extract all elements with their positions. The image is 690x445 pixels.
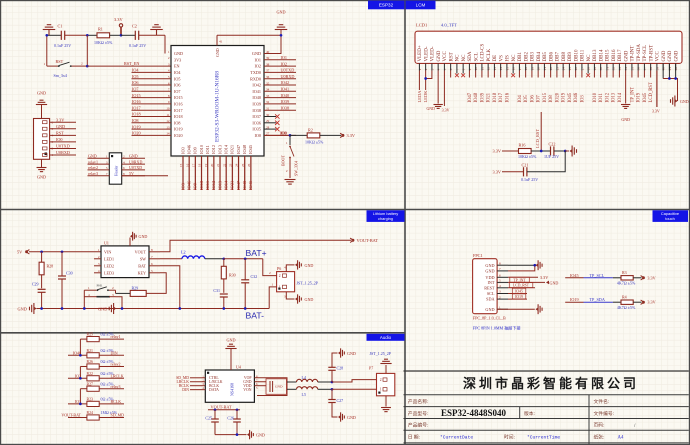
svg-text:5V: 5V	[17, 249, 23, 254]
svg-text:21: 21	[216, 163, 220, 167]
svg-text:IO42: IO42	[281, 80, 290, 85]
svg-text:R30: R30	[229, 272, 236, 277]
svg-text:DB10: DB10	[574, 49, 579, 61]
svg-text:U0TXD: U0TXD	[281, 68, 295, 73]
resistor R23	[87, 401, 99, 406]
ground - LCD right corner	[675, 99, 677, 102]
svg-text:IO10: IO10	[199, 144, 204, 154]
svg-text:C32: C32	[251, 274, 258, 279]
svg-text:IO46: IO46	[186, 180, 191, 190]
U2 bottom pin 15 IO3	[182, 156, 184, 190]
ground - P6 bottom	[295, 297, 297, 300]
svg-text:C29: C29	[32, 282, 39, 287]
svg-text:IO37: IO37	[252, 114, 261, 119]
tab Capacitive touch	[653, 210, 689, 222]
P4 bottom pin to ground	[41, 159, 43, 167]
svg-text:IO20: IO20	[174, 133, 183, 138]
svg-text:IO19: IO19	[174, 127, 183, 132]
capacitor C28	[331, 370, 333, 382]
ground - FPC top	[536, 264, 538, 267]
svg-text:charging: charging	[378, 216, 393, 221]
wire net IO0 to R2	[264, 134, 290, 136]
svg-text:Audio: Audio	[380, 335, 392, 340]
svg-text:DB16: DB16	[612, 49, 617, 61]
wire net IO19	[132, 128, 172, 130]
P6 pin3 to ground	[286, 292, 294, 299]
svg-text:3.3V: 3.3V	[647, 300, 655, 305]
svg-text:DB8: DB8	[562, 52, 567, 62]
svg-text:纸张:: 纸张:	[594, 434, 605, 441]
wire to L5	[287, 388, 297, 390]
wire net IO1	[264, 59, 296, 61]
resistor R30	[223, 259, 225, 266]
svg-text:R28: R28	[47, 264, 54, 269]
svg-text:IO21: IO21	[230, 181, 235, 190]
Y1 pin 6 U0TXD	[122, 169, 145, 171]
U2 bottom pin 17 IO9	[194, 156, 196, 190]
svg-text:TP_SCL: TP_SCL	[590, 273, 605, 278]
svg-text:P7: P7	[369, 366, 373, 371]
wire net TP_SDA	[584, 301, 613, 303]
wire net IO5	[132, 78, 172, 80]
svg-text:SW: SW	[140, 256, 146, 261]
svg-text:IO10: IO10	[199, 180, 204, 190]
svg-text:DB5: DB5	[543, 52, 548, 62]
wire net IO40	[264, 97, 296, 99]
svg-text:DB4: DB4	[537, 52, 542, 62]
svg-text:P6: P6	[277, 266, 281, 271]
wire net IO4	[132, 71, 172, 73]
svg-text:20: 20	[210, 163, 214, 167]
wire BAT+ line	[224, 258, 263, 260]
svg-text:IO16: IO16	[174, 102, 183, 107]
svg-text:IO38: IO38	[281, 105, 290, 110]
svg-text:25: 25	[241, 163, 245, 167]
svg-text:IO45: IO45	[515, 289, 523, 293]
capacitor C30	[61, 252, 63, 276]
svg-text:0.1uF 25V: 0.1uF 25V	[54, 43, 71, 48]
svg-text:TP-SCL: TP-SCL	[643, 45, 648, 62]
resistor R27	[87, 386, 99, 391]
svg-text:IO18: IO18	[493, 92, 498, 102]
svg-text:DATA: DATA	[209, 388, 219, 392]
svg-text:IO1: IO1	[281, 55, 288, 60]
connector P7 body	[377, 373, 395, 395]
svg-text:IO4: IO4	[174, 70, 181, 75]
svg-text:LED3: LED3	[104, 270, 114, 275]
svg-text:3.3V: 3.3V	[347, 133, 356, 138]
Y1 pin 1 GND	[88, 157, 110, 159]
svg-text:JST_1.25_2P: JST_1.25_2P	[297, 281, 319, 286]
svg-text:NC: NC	[456, 54, 461, 62]
svg-text:19: 19	[204, 163, 208, 167]
wire net IO19	[565, 301, 583, 303]
svg-text:IO12: IO12	[605, 92, 610, 102]
svg-text:GND: GND	[624, 50, 629, 61]
no-connect X	[455, 73, 459, 77]
svg-text:IO16: IO16	[132, 99, 141, 104]
svg-text:RXD0: RXD0	[250, 76, 261, 81]
svg-text:R1: R1	[98, 27, 103, 32]
svg-text:18: 18	[198, 163, 202, 167]
svg-text:BOOT: BOOT	[281, 155, 286, 166]
wire	[633, 301, 641, 303]
svg-text:REST: REST	[484, 285, 495, 290]
svg-text:IO47: IO47	[236, 144, 241, 154]
svg-text:IO20: IO20	[132, 131, 141, 136]
svg-text:IO46: IO46	[574, 92, 579, 102]
svg-text:IO11: IO11	[599, 92, 604, 102]
svg-text:KEY: KEY	[138, 270, 146, 275]
resistor R24	[87, 415, 99, 420]
svg-text:R2: R2	[308, 128, 313, 133]
svg-text:IO0: IO0	[254, 133, 261, 138]
wire net IO0	[264, 134, 296, 136]
svg-text:IO21: IO21	[230, 145, 235, 154]
wire to P7 pin2	[332, 380, 377, 382]
Y1 pin 5 relay2	[88, 169, 110, 171]
svg-text:10KΩ ±5%: 10KΩ ±5%	[518, 154, 537, 159]
svg-text:日 期:: 日 期:	[408, 435, 420, 441]
U2 bottom pin 21 IO13	[219, 156, 221, 190]
svg-text:R23: R23	[87, 398, 94, 402]
svg-text:GND: GND	[275, 384, 283, 388]
ground - P7 bottom	[381, 407, 391, 409]
svg-text:GND: GND	[215, 48, 220, 57]
svg-text:IO35: IO35	[252, 127, 261, 132]
ground - top near C2	[150, 29, 163, 31]
svg-text:DB14: DB14	[599, 49, 604, 61]
svg-text:C1: C1	[58, 24, 63, 29]
svg-text:L5: L5	[302, 392, 306, 397]
svg-text:U0RXD: U0RXD	[56, 150, 70, 155]
resistor R28	[41, 252, 43, 262]
wire 5V rail	[29, 251, 101, 253]
svg-text:LCD-CS: LCD-CS	[481, 44, 486, 62]
svg-text:C31: C31	[213, 288, 220, 293]
wire IO2 pair join	[79, 367, 81, 379]
ground - FPC bottom	[536, 308, 538, 311]
svg-text:2: 2	[279, 274, 281, 278]
svg-text:IO7: IO7	[174, 89, 181, 94]
wire KEY to R29	[147, 273, 167, 294]
wire	[264, 30, 281, 54]
capacitor C26	[236, 410, 238, 419]
svg-text:SDA: SDA	[468, 51, 473, 61]
no-connect X	[264, 116, 276, 118]
svg-text:C30: C30	[66, 271, 73, 276]
svg-text:FPC1: FPC1	[473, 253, 483, 258]
svg-text:relay2: relay2	[88, 165, 98, 170]
svg-text:IO3: IO3	[180, 182, 185, 190]
svg-text:IO19: IO19	[562, 92, 567, 102]
svg-text:TP_SDA: TP_SDA	[590, 297, 605, 302]
svg-text:LED1: LED1	[104, 256, 114, 261]
wire	[121, 34, 135, 36]
wire	[116, 292, 131, 294]
svg-text:R26: R26	[87, 360, 94, 364]
wire net IO6	[132, 84, 172, 86]
svg-text:IO38: IO38	[252, 108, 261, 113]
svg-text:3.3V: 3.3V	[442, 108, 450, 113]
wire	[318, 381, 332, 383]
svg-text:24: 24	[235, 163, 239, 167]
svg-text:时间:: 时间:	[504, 434, 515, 441]
svg-text:4.0_TFT: 4.0_TFT	[441, 22, 457, 27]
wire	[633, 277, 641, 279]
svg-text:41: 41	[219, 40, 223, 44]
net label IO45	[508, 293, 527, 295]
svg-text:GND: GND	[305, 263, 314, 268]
svg-text:IO17: IO17	[132, 105, 141, 110]
svg-text:U0TXD: U0TXD	[129, 165, 142, 170]
svg-text:TP-INT: TP-INT	[631, 46, 636, 62]
ground - C27	[338, 415, 340, 418]
svg-text:VOUT-BAT: VOUT-BAT	[357, 238, 379, 243]
op-amp U4 audio amp body	[205, 370, 254, 402]
svg-text:10KΩ ±5%: 10KΩ ±5%	[305, 139, 324, 144]
wire net IO45	[565, 277, 583, 279]
svg-text:DB15: DB15	[606, 49, 611, 61]
svg-text:R21: R21	[87, 349, 94, 353]
svg-text:VLED-: VLED-	[424, 46, 429, 61]
svg-text:2: 2	[81, 62, 83, 66]
svg-text:*CurrentDate: *CurrentDate	[440, 435, 473, 441]
svg-text:GND: GND	[56, 124, 65, 129]
svg-text:RST: RST	[56, 131, 64, 136]
svg-text:IO45: IO45	[568, 92, 573, 102]
svg-text:C28: C28	[337, 366, 344, 371]
svg-text:IO19: IO19	[515, 295, 523, 299]
svg-text:IO14: IO14	[223, 144, 228, 154]
svg-text:IO47: IO47	[468, 92, 473, 102]
svg-text:GND: GND	[305, 297, 314, 302]
svg-text:15: 15	[179, 163, 183, 167]
capacitor C25	[214, 410, 216, 419]
svg-text:IO40: IO40	[252, 95, 261, 100]
wire PH1 pin3 to ground rail	[116, 297, 123, 309]
no-connect X	[264, 122, 276, 124]
svg-text:IO18: IO18	[132, 112, 141, 117]
svg-text:IO2: IO2	[254, 64, 261, 69]
wire	[527, 151, 565, 172]
svg-text:L2: L2	[181, 250, 186, 255]
wire to net BCLK	[99, 403, 124, 405]
wire from net IO1	[68, 403, 87, 405]
wire	[318, 388, 332, 390]
wire net IO42	[264, 84, 296, 86]
svg-text:IO8: IO8	[132, 118, 139, 123]
svg-text:R29: R29	[132, 285, 139, 290]
svg-text:DIN: DIN	[182, 388, 189, 392]
wire net IO18	[132, 116, 172, 118]
capacitor C27	[331, 389, 333, 399]
svg-text:IO48: IO48	[474, 92, 479, 102]
wire FPC GND pins join	[508, 265, 535, 271]
svg-text:文件名:: 文件名:	[594, 398, 610, 405]
tab Audio	[367, 334, 405, 341]
svg-text:16: 16	[185, 163, 189, 167]
svg-text:touch: touch	[665, 216, 675, 221]
svg-text:*CurrentTime: *CurrentTime	[527, 435, 560, 441]
svg-text:NC: NC	[587, 54, 592, 62]
svg-text:GND: GND	[485, 263, 494, 268]
svg-text:GND: GND	[662, 50, 667, 61]
svg-text:IO1: IO1	[254, 57, 261, 62]
ground - audio caps	[247, 433, 249, 436]
wire	[47, 34, 61, 36]
wire	[531, 150, 550, 152]
svg-text:NC: NC	[512, 54, 517, 62]
svg-text:IO45: IO45	[248, 144, 253, 154]
wire	[65, 34, 88, 36]
svg-text:BCLK: BCLK	[111, 399, 122, 404]
wire from net VOUT-BAT	[68, 417, 87, 419]
svg-text:IO12: IO12	[211, 145, 216, 154]
power port 3.3V	[641, 276, 644, 280]
svg-text:VOUT: VOUT	[135, 249, 147, 254]
wire BAT+ to P6 pin2	[263, 259, 277, 276]
svg-text:EN: EN	[174, 64, 180, 69]
svg-text:5V: 5V	[129, 171, 134, 176]
svg-text:DB11: DB11	[581, 49, 586, 61]
svg-text:1: 1	[279, 285, 281, 289]
svg-text:DB9: DB9	[568, 52, 573, 62]
wire net TP_SCL	[584, 277, 613, 279]
svg-text:IO4: IO4	[132, 68, 139, 73]
svg-text:LEDK: LEDK	[423, 90, 428, 103]
net label IO19	[508, 298, 527, 300]
wire - LCD GND pins 40-42 join	[663, 79, 677, 102]
svg-text:GND: GND	[98, 306, 107, 311]
svg-text:IO36: IO36	[252, 120, 261, 125]
svg-text:R25: R25	[87, 333, 94, 337]
svg-text:3.3V: 3.3V	[114, 17, 123, 22]
svg-text:GND: GND	[139, 234, 148, 239]
svg-text:DB2: DB2	[524, 52, 529, 62]
svg-text:DB1: DB1	[518, 52, 523, 62]
wire to net relay1	[99, 338, 124, 340]
Y1 pin 7 relay3	[88, 175, 110, 177]
svg-text:23: 23	[229, 163, 233, 167]
P4 pin 2 U0TXD	[43, 147, 48, 150]
ground - P7 top	[380, 363, 391, 365]
svg-text:relay1: relay1	[111, 334, 121, 339]
wire P6 pin1 to BAT-	[269, 287, 276, 309]
svg-text:HS: HS	[506, 55, 511, 62]
svg-text:FPC_8P_1.0_CL_B: FPC_8P_1.0_CL_B	[473, 316, 506, 321]
svg-text:LCD_RST: LCD_RST	[535, 129, 540, 148]
connector P6 body	[277, 272, 295, 292]
resistor R29	[130, 290, 146, 296]
wire FPC pin1 GND	[497, 308, 535, 310]
wire VLED- join	[426, 71, 432, 79]
svg-text:IO8: IO8	[174, 120, 181, 125]
svg-text:深圳市晶彩智能有限公司: 深圳市晶彩智能有限公司	[463, 376, 639, 391]
svg-text:文件编号:: 文件编号:	[594, 410, 615, 417]
svg-text:IO3: IO3	[580, 95, 585, 103]
wire	[217, 34, 281, 36]
svg-text:DB3: DB3	[531, 52, 536, 62]
resistor R1	[97, 33, 110, 38]
svg-text:TP-SDA: TP-SDA	[637, 44, 642, 62]
ground - R16/C22	[565, 150, 569, 152]
svg-text:GND: GND	[18, 306, 27, 311]
svg-text:VCC: VCC	[656, 51, 661, 62]
resistor R22	[87, 376, 99, 381]
svg-text:IO6: IO6	[132, 80, 139, 85]
filter block caps to speaker	[254, 378, 287, 396]
ground - LCD pin34	[621, 104, 630, 106]
wire to P7 pin1	[332, 388, 377, 390]
no-connect X	[264, 128, 276, 130]
svg-text:版本:: 版本:	[524, 410, 535, 417]
svg-text:IO11: IO11	[205, 181, 210, 190]
svg-text:IO39: IO39	[281, 99, 290, 104]
svg-text:IO9: IO9	[193, 146, 198, 154]
title block frame	[404, 371, 689, 445]
wire to net DIN	[99, 354, 124, 356]
svg-text:IO20: IO20	[555, 92, 560, 102]
no-connect X	[461, 73, 465, 77]
svg-text:C25: C25	[205, 415, 212, 420]
capacitor C1	[60, 31, 62, 40]
svg-text:IO6: IO6	[174, 83, 181, 88]
wire	[205, 258, 224, 260]
wire net U0TXD	[264, 71, 296, 73]
svg-text:10KΩ ±5%: 10KΩ ±5%	[94, 40, 113, 45]
U1 top ground pin	[129, 238, 131, 246]
svg-text:GND: GND	[485, 307, 494, 312]
svg-text:VOUT-BAT: VOUT-BAT	[211, 404, 232, 409]
resistor R4	[621, 300, 633, 304]
wire	[139, 34, 165, 36]
svg-text:GND: GND	[621, 117, 630, 122]
svg-text:RST: RST	[449, 52, 454, 61]
wire net IO39	[264, 103, 296, 105]
svg-text:PCLK: PCLK	[487, 48, 492, 61]
section divider horizontal upper	[0, 209, 690, 211]
U2 bottom pin 16 IO46	[188, 156, 190, 190]
svg-text:0.1uF 25V: 0.1uF 25V	[129, 43, 146, 48]
resistor R26	[87, 364, 99, 369]
wire net U0RXD	[264, 78, 296, 80]
svg-text:GND: GND	[427, 107, 436, 111]
svg-text:relay3: relay3	[111, 384, 121, 389]
svg-text:VOUT-BAT: VOUT-BAT	[61, 413, 81, 418]
svg-text:R4: R4	[622, 295, 627, 300]
svg-text:IO45: IO45	[570, 273, 579, 278]
P7 bottom pin to ground	[385, 396, 387, 407]
svg-text:FPC 8PIN 1.0MM 抽屉下接: FPC 8PIN 1.0MM 抽屉下接	[473, 324, 521, 330]
power port 3.3V	[641, 300, 644, 304]
svg-text:IO17: IO17	[174, 108, 183, 113]
svg-text:IO5: IO5	[132, 74, 139, 79]
wire - RST column left	[46, 35, 48, 66]
wire net IO17	[132, 109, 172, 111]
svg-text:R16: R16	[519, 143, 526, 148]
svg-text:页码:: 页码:	[594, 422, 605, 429]
svg-text:ESP32: ESP32	[379, 3, 394, 8]
svg-text:NS4168: NS4168	[230, 383, 235, 396]
svg-text:IO2: IO2	[281, 61, 288, 66]
U2 top pin 41 GND	[216, 35, 218, 45]
op-amp U2 ESP32 module body	[171, 46, 264, 157]
no-connect X	[586, 73, 590, 77]
svg-text:JST_1.25_2P: JST_1.25_2P	[370, 351, 392, 356]
svg-text:RST_EN: RST_EN	[124, 61, 139, 66]
svg-text:SD_MD: SD_MD	[111, 413, 125, 418]
